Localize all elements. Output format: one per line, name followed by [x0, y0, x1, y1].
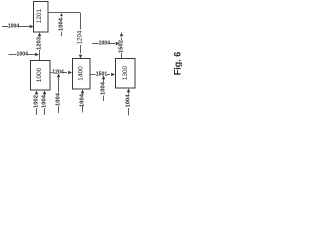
arrowhead 1004 up into 1501 wire — [102, 76, 105, 80]
svg-text:Fig. 6: Fig. 6 — [173, 52, 183, 76]
arrowhead 1004 up into 1204 wire — [57, 74, 60, 78]
arrowhead 1004 into 1400 bottom — [81, 90, 84, 94]
svg-text:1502: 1502 — [119, 40, 125, 53]
arrowhead into 1400 top — [79, 55, 82, 59]
svg-text:1000: 1000 — [36, 67, 43, 82]
svg-text:1004: 1004 — [80, 93, 86, 107]
wire 1004 into 1203 wire — [9, 54, 36, 56]
arrowhead 1203 into 1201 bottom — [38, 33, 41, 37]
block 1201 — [34, 2, 49, 33]
svg-text:1501: 1501 — [96, 72, 108, 78]
svg-text:1004: 1004 — [126, 94, 132, 108]
wire 1004 up into top wire — [61, 17, 63, 36]
block 1000 — [31, 61, 51, 91]
wire 1501 from 1400 to 1300 — [90, 74, 110, 76]
wire 1203 from 1000 top to 1201 bottom — [39, 37, 41, 61]
wire 1004 into 1502 wire — [92, 43, 115, 45]
arrowhead 1004 into 1000 bottom — [43, 91, 46, 95]
svg-text:1300: 1300 — [122, 65, 129, 80]
arrowhead 1004 up into top wire — [60, 13, 63, 16]
arrowhead 1004 into 1502 wire — [116, 42, 120, 45]
block 1400 — [73, 59, 91, 90]
svg-text:1203: 1203 — [37, 36, 43, 50]
wire 1004 into 1000 bottom — [44, 95, 46, 116]
svg-text:1004: 1004 — [42, 94, 48, 108]
svg-text:1201: 1201 — [36, 8, 43, 23]
wire 1004 into 1300 bottom — [128, 93, 130, 116]
svg-text:1204: 1204 — [52, 70, 64, 76]
wire 1004 into block 1201 left — [2, 26, 30, 28]
svg-text:1004: 1004 — [99, 41, 111, 47]
wire 1004 up into 1204 wire — [58, 78, 60, 114]
wire 1004 up into 1501 wire — [103, 79, 105, 101]
wire 1502 up from 1300 top — [121, 38, 123, 59]
svg-text:1204: 1204 — [78, 30, 84, 44]
arrowhead 1002 into 1000 bottom — [35, 91, 38, 95]
block 1300 — [116, 59, 136, 89]
wire 1204 from 1000 to 1400 — [50, 72, 67, 74]
svg-text:1004: 1004 — [17, 52, 29, 58]
svg-text:1400: 1400 — [78, 66, 85, 81]
svg-text:1004: 1004 — [59, 17, 65, 31]
arrowhead 1501 into 1300 left — [111, 73, 115, 76]
svg-text:1004: 1004 — [8, 24, 20, 30]
arrowhead 1204 into 1400 left — [68, 71, 72, 74]
wire from 1201 right to 1400 top (net 1204) — [48, 13, 81, 54]
arrowhead 1004 into 1300 bottom — [127, 89, 130, 93]
wire 1002 into 1000 bottom — [36, 95, 38, 116]
arrowhead 1004 into 1203 wire — [35, 53, 39, 56]
arrowhead into 1201 left — [30, 25, 34, 28]
arrowhead 1502 output up — [120, 33, 123, 37]
svg-text:1004: 1004 — [56, 92, 62, 106]
svg-text:1004: 1004 — [101, 81, 107, 95]
svg-text:1002: 1002 — [34, 95, 40, 108]
wire 1004 into 1400 bottom — [82, 94, 84, 113]
